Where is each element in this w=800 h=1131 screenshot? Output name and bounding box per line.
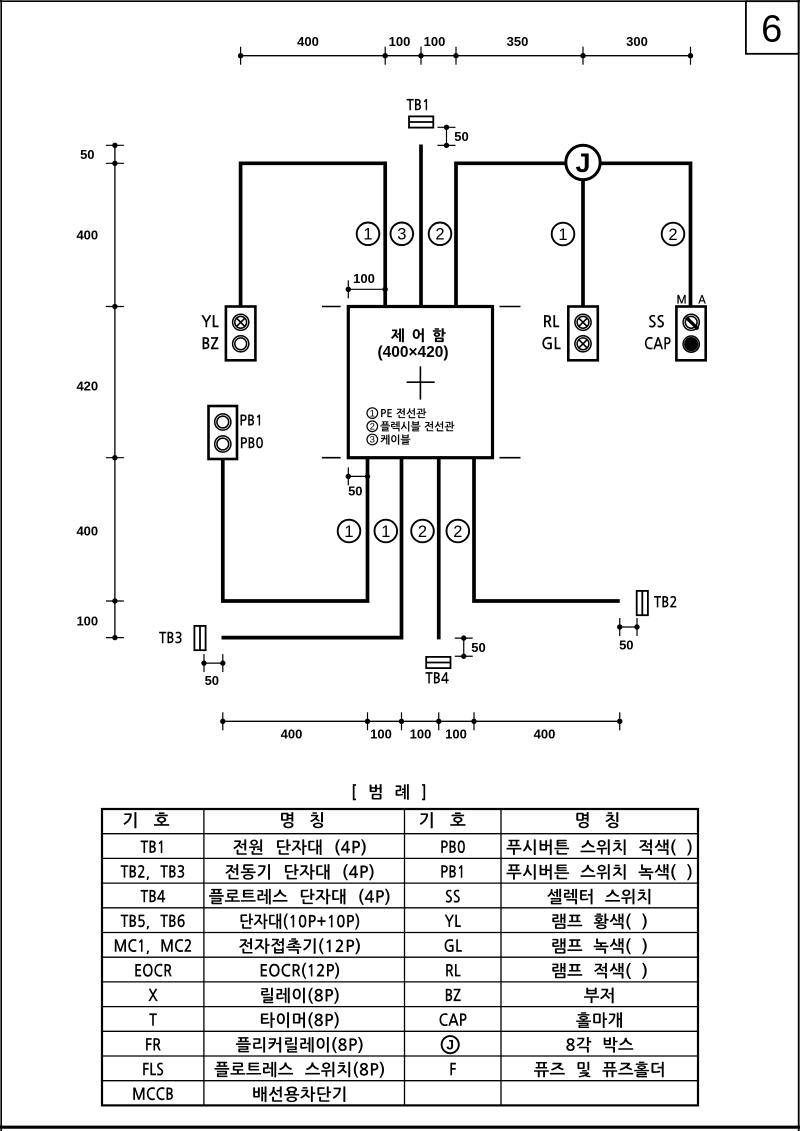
svg-text:100: 100 xyxy=(353,271,375,286)
bottom dim tick 6 xyxy=(617,712,622,730)
legend row 8 symbol CAP xyxy=(440,1013,467,1026)
legend row 10 name 플로트레스 스위치(8P) xyxy=(215,1062,385,1078)
terminal block TB3 xyxy=(194,626,205,650)
svg-text:100: 100 xyxy=(410,727,432,742)
control box bottom-left extension dash xyxy=(322,457,341,459)
hole cap CAP xyxy=(683,336,699,352)
svg-text:J: J xyxy=(575,148,590,178)
wire mark 1 (J drop) xyxy=(552,223,575,246)
legend row 8 name 홀마개 xyxy=(576,1012,622,1028)
svg-text:1: 1 xyxy=(558,226,567,244)
wire PB0 route xyxy=(223,458,368,601)
svg-text:420: 420 xyxy=(76,379,98,394)
TB4 dim tick bottom xyxy=(455,654,473,659)
wire TB2 route xyxy=(474,458,620,601)
legend row 3 symbol TB4 xyxy=(141,890,166,903)
legend table row line 2 xyxy=(102,857,698,859)
legend table row line 10 xyxy=(102,1055,698,1057)
label PB0 xyxy=(241,437,263,448)
lamp GL xyxy=(575,336,591,352)
TB4 dim tick top xyxy=(455,635,473,640)
svg-text:6: 6 xyxy=(761,8,782,50)
left dim tick 6 xyxy=(106,635,124,640)
bottom dim tick 2 xyxy=(365,712,370,730)
TB3 dim tick left xyxy=(201,654,206,672)
svg-text:50: 50 xyxy=(471,640,485,655)
legend row 2 symbol PB1 xyxy=(441,865,462,878)
junction box J xyxy=(566,145,600,179)
bottom dim tick 1 xyxy=(220,712,225,730)
page border top xyxy=(0,0,800,2)
legend table row line 4 xyxy=(102,907,698,909)
selector switch SS xyxy=(683,314,699,330)
bottom dim tick 4 xyxy=(436,712,441,730)
legend row 10 symbol FLS xyxy=(143,1063,163,1076)
legend row 2 name 전동기 단자대 (4P) xyxy=(226,864,374,880)
legend row 4 symbol TB5, TB6 xyxy=(121,914,185,929)
svg-text:100: 100 xyxy=(370,727,392,742)
bottom dim tick 5 xyxy=(471,712,476,730)
wire mark 2 (TB4 drop) xyxy=(411,520,434,543)
svg-text:2: 2 xyxy=(435,226,444,244)
terminal block TB1 xyxy=(409,116,433,127)
box offset dim tick left xyxy=(346,280,351,298)
svg-text:1: 1 xyxy=(344,523,353,541)
left dimension line xyxy=(114,145,116,637)
svg-text:3: 3 xyxy=(370,435,375,446)
legend row 1 symbol TB1 xyxy=(141,841,163,854)
svg-text:100: 100 xyxy=(389,34,411,49)
label TB2 xyxy=(654,596,676,608)
top dim tick 2 xyxy=(383,47,388,65)
label RL xyxy=(544,315,559,327)
wire mark 2 (TB2 route) xyxy=(447,520,470,543)
left dim tick 2 xyxy=(106,161,124,166)
SS CAP station box xyxy=(676,307,705,361)
box bottom offset dim line xyxy=(348,475,367,477)
legend row 7 name 릴레이(8P) xyxy=(261,988,339,1004)
legend row 5 name 전자접촉기(12P) xyxy=(239,938,360,954)
legend row 9 name 8각 박스 xyxy=(566,1037,633,1053)
label YL xyxy=(201,315,218,327)
control box bottom-right extension dash xyxy=(500,457,521,459)
control box center cross xyxy=(407,366,435,399)
buzzer BZ xyxy=(233,336,249,352)
left dim tick 3 xyxy=(106,304,124,309)
terminal block TB4 xyxy=(426,657,450,668)
wire TB4 drop xyxy=(437,458,441,640)
legend row 5 symbol GL xyxy=(445,939,462,952)
legend row 11 symbol MCCB xyxy=(133,1087,173,1100)
legend table row line 5 xyxy=(102,932,698,934)
control box top-left extension dash xyxy=(322,306,341,308)
legend row 6 symbol RL xyxy=(446,964,460,976)
label A xyxy=(698,295,706,304)
svg-text:1: 1 xyxy=(363,226,372,244)
wire TB1 to control box xyxy=(419,145,423,307)
svg-text:(400×420): (400×420) xyxy=(377,344,448,361)
RL GL station box xyxy=(568,307,598,361)
legend table row line 11 xyxy=(102,1080,698,1082)
top dim tick 4 xyxy=(453,47,458,65)
label PB1 xyxy=(241,415,261,426)
legend header symbol 1 xyxy=(124,812,170,828)
svg-text:400: 400 xyxy=(534,727,556,742)
YL BZ station box xyxy=(226,307,256,361)
left dim tick 5 xyxy=(106,598,124,603)
TB4 dim line xyxy=(463,638,465,656)
svg-text:400: 400 xyxy=(297,34,319,49)
TB2 dim tick right xyxy=(634,618,639,636)
box offset dim line 100 xyxy=(348,288,385,290)
box bottom dim tick left xyxy=(346,467,351,485)
wire mark 1 (left route) xyxy=(357,223,380,246)
top dim tick 6 xyxy=(688,47,693,65)
legend row 1 name 푸시버튼 스위치 적색( ) xyxy=(507,839,692,855)
svg-text:300: 300 xyxy=(626,34,648,49)
svg-text:50: 50 xyxy=(454,129,468,144)
legend row 11 name 배선용차단기 xyxy=(253,1086,345,1102)
note mark 2 xyxy=(367,421,378,433)
legend table row line 6 xyxy=(102,956,698,958)
wire J box drop xyxy=(581,163,585,306)
svg-text:50: 50 xyxy=(80,147,94,162)
legend row 6 name 램프 적색( ) xyxy=(552,963,646,979)
top dim tick 3 xyxy=(418,47,423,65)
label TB3 xyxy=(159,632,182,644)
legend row 9 name 플리커릴레이(8P) xyxy=(236,1037,363,1053)
legend header name 1 xyxy=(281,812,323,828)
TB3 dim tick right xyxy=(220,654,225,672)
legend row 5 name 램프 녹색( ) xyxy=(552,938,646,954)
svg-text:350: 350 xyxy=(507,34,529,49)
box offset dim tick right xyxy=(383,280,388,298)
legend table column line 1 xyxy=(203,809,205,1105)
legend header name 2 xyxy=(576,812,618,828)
TB1 dim tick top xyxy=(438,125,456,130)
TB2 dim line xyxy=(620,626,637,628)
legend row 10 name 퓨즈 및 퓨즈홀더 xyxy=(534,1062,664,1078)
legend row 7 symbol X xyxy=(148,989,157,1001)
wire mark 2 (right route) xyxy=(429,223,452,246)
svg-text:2: 2 xyxy=(453,523,462,541)
svg-text:1: 1 xyxy=(370,408,375,419)
note mark 3 xyxy=(367,434,378,446)
legend row 9 symbol circled J xyxy=(442,1036,459,1053)
legend table row line 7 xyxy=(102,981,698,983)
bottom dim tick 3 xyxy=(399,712,404,730)
legend row 3 name 플로트레스 단자대 (4P) xyxy=(209,889,390,905)
TB2 dim tick left xyxy=(617,618,622,636)
svg-text:400: 400 xyxy=(76,524,98,539)
legend row 6 symbol EOCR xyxy=(135,964,171,977)
legend table row line 9 xyxy=(102,1030,698,1032)
svg-text:100: 100 xyxy=(424,34,446,49)
legend row 3 symbol SS xyxy=(446,890,460,903)
wire mark 2 (SS drop) xyxy=(662,223,685,246)
svg-text:2: 2 xyxy=(668,226,677,244)
legend row 4 name 단자대(10P+10P) xyxy=(241,914,360,930)
label BZ xyxy=(203,337,219,349)
pushbutton PB1 xyxy=(215,414,231,430)
legend title xyxy=(353,784,425,800)
svg-text:50: 50 xyxy=(205,673,219,688)
control box title 제어함 xyxy=(391,328,446,342)
control box outline xyxy=(348,307,492,458)
legend table column line 2 xyxy=(404,809,406,1105)
pushbutton PB0 xyxy=(215,436,231,452)
svg-text:1: 1 xyxy=(381,523,390,541)
label CAP xyxy=(645,337,671,350)
svg-text:100: 100 xyxy=(445,727,467,742)
legend table row line 1 xyxy=(102,833,698,835)
label TB4 xyxy=(426,672,449,683)
legend table row line 3 xyxy=(102,882,698,884)
bottom dimension line xyxy=(223,720,620,722)
TB3 dim line xyxy=(204,662,223,664)
top dimension line xyxy=(241,55,691,57)
label GL xyxy=(542,337,560,350)
legend row 9 symbol FR xyxy=(146,1038,161,1050)
legend row 4 name 램프 황색( ) xyxy=(552,914,646,930)
legend table outer border xyxy=(102,809,698,1105)
legend row 1 symbol PB0 xyxy=(441,840,465,853)
legend row 2 name 푸시버튼 스위치 녹색( ) xyxy=(507,864,692,880)
box bottom dim tick right xyxy=(365,467,370,485)
wire right route xyxy=(456,163,691,306)
svg-text:3: 3 xyxy=(397,226,406,244)
lamp RL xyxy=(575,314,591,330)
wire TB3 route xyxy=(222,458,402,638)
page border left xyxy=(0,0,2,1131)
label SS xyxy=(649,315,664,328)
svg-text:100: 100 xyxy=(76,614,98,629)
left dim tick 4 xyxy=(106,455,124,460)
svg-text:400: 400 xyxy=(76,228,98,243)
page border bottom xyxy=(0,1126,800,1129)
sheet number box xyxy=(746,1,799,54)
wire mark 3 (TB1 cable) xyxy=(391,223,414,246)
legend row 5 symbol MC1, MC2 xyxy=(115,939,191,954)
legend row 7 name 부저 xyxy=(584,988,614,1004)
legend row 2 symbol TB2, TB3 xyxy=(121,865,185,880)
left dim tick 1 xyxy=(106,143,124,148)
label TB1 xyxy=(407,99,428,110)
svg-text:50: 50 xyxy=(348,483,362,498)
legend row 6 name EOCR(12P) xyxy=(261,963,339,979)
note 3 cable xyxy=(381,434,411,444)
top dim tick 1 xyxy=(238,47,243,65)
control box top-right extension dash xyxy=(500,306,521,308)
TB1 dim tick bottom xyxy=(438,143,456,148)
note 1 PE conduit xyxy=(381,408,426,418)
top dim tick 5 xyxy=(580,47,585,65)
note 2 flexible conduit xyxy=(380,421,454,431)
wire mark 1 (PB route) xyxy=(338,520,361,543)
page border right xyxy=(798,0,800,1131)
legend row 3 name 셀렉터 스위치 xyxy=(547,889,650,905)
legend row 10 symbol F xyxy=(450,1063,456,1075)
label M xyxy=(677,295,685,304)
svg-text:400: 400 xyxy=(281,727,303,742)
legend header symbol 2 xyxy=(420,812,466,828)
TB1 offset dim line xyxy=(446,127,448,145)
legend row 4 symbol YL xyxy=(445,915,461,927)
terminal block TB2 xyxy=(637,591,648,615)
svg-text:50: 50 xyxy=(619,638,633,653)
svg-text:J: J xyxy=(446,1037,454,1053)
legend table row line 8 xyxy=(102,1006,698,1008)
note mark 1 xyxy=(367,408,378,419)
PB station box xyxy=(209,406,238,459)
lamp YL xyxy=(233,314,249,330)
legend row 1 name 전원 단자대 (4P) xyxy=(233,839,365,855)
legend row 8 symbol T xyxy=(149,1013,157,1025)
wire mark 1 (TB3 route) xyxy=(375,520,398,543)
legend table column line 3 xyxy=(500,809,502,1105)
svg-text:2: 2 xyxy=(418,523,427,541)
svg-text:2: 2 xyxy=(370,422,375,433)
legend row 8 name 타이머(8P) xyxy=(261,1012,339,1028)
legend row 7 symbol BZ xyxy=(446,989,461,1001)
wire left route xyxy=(241,163,386,306)
